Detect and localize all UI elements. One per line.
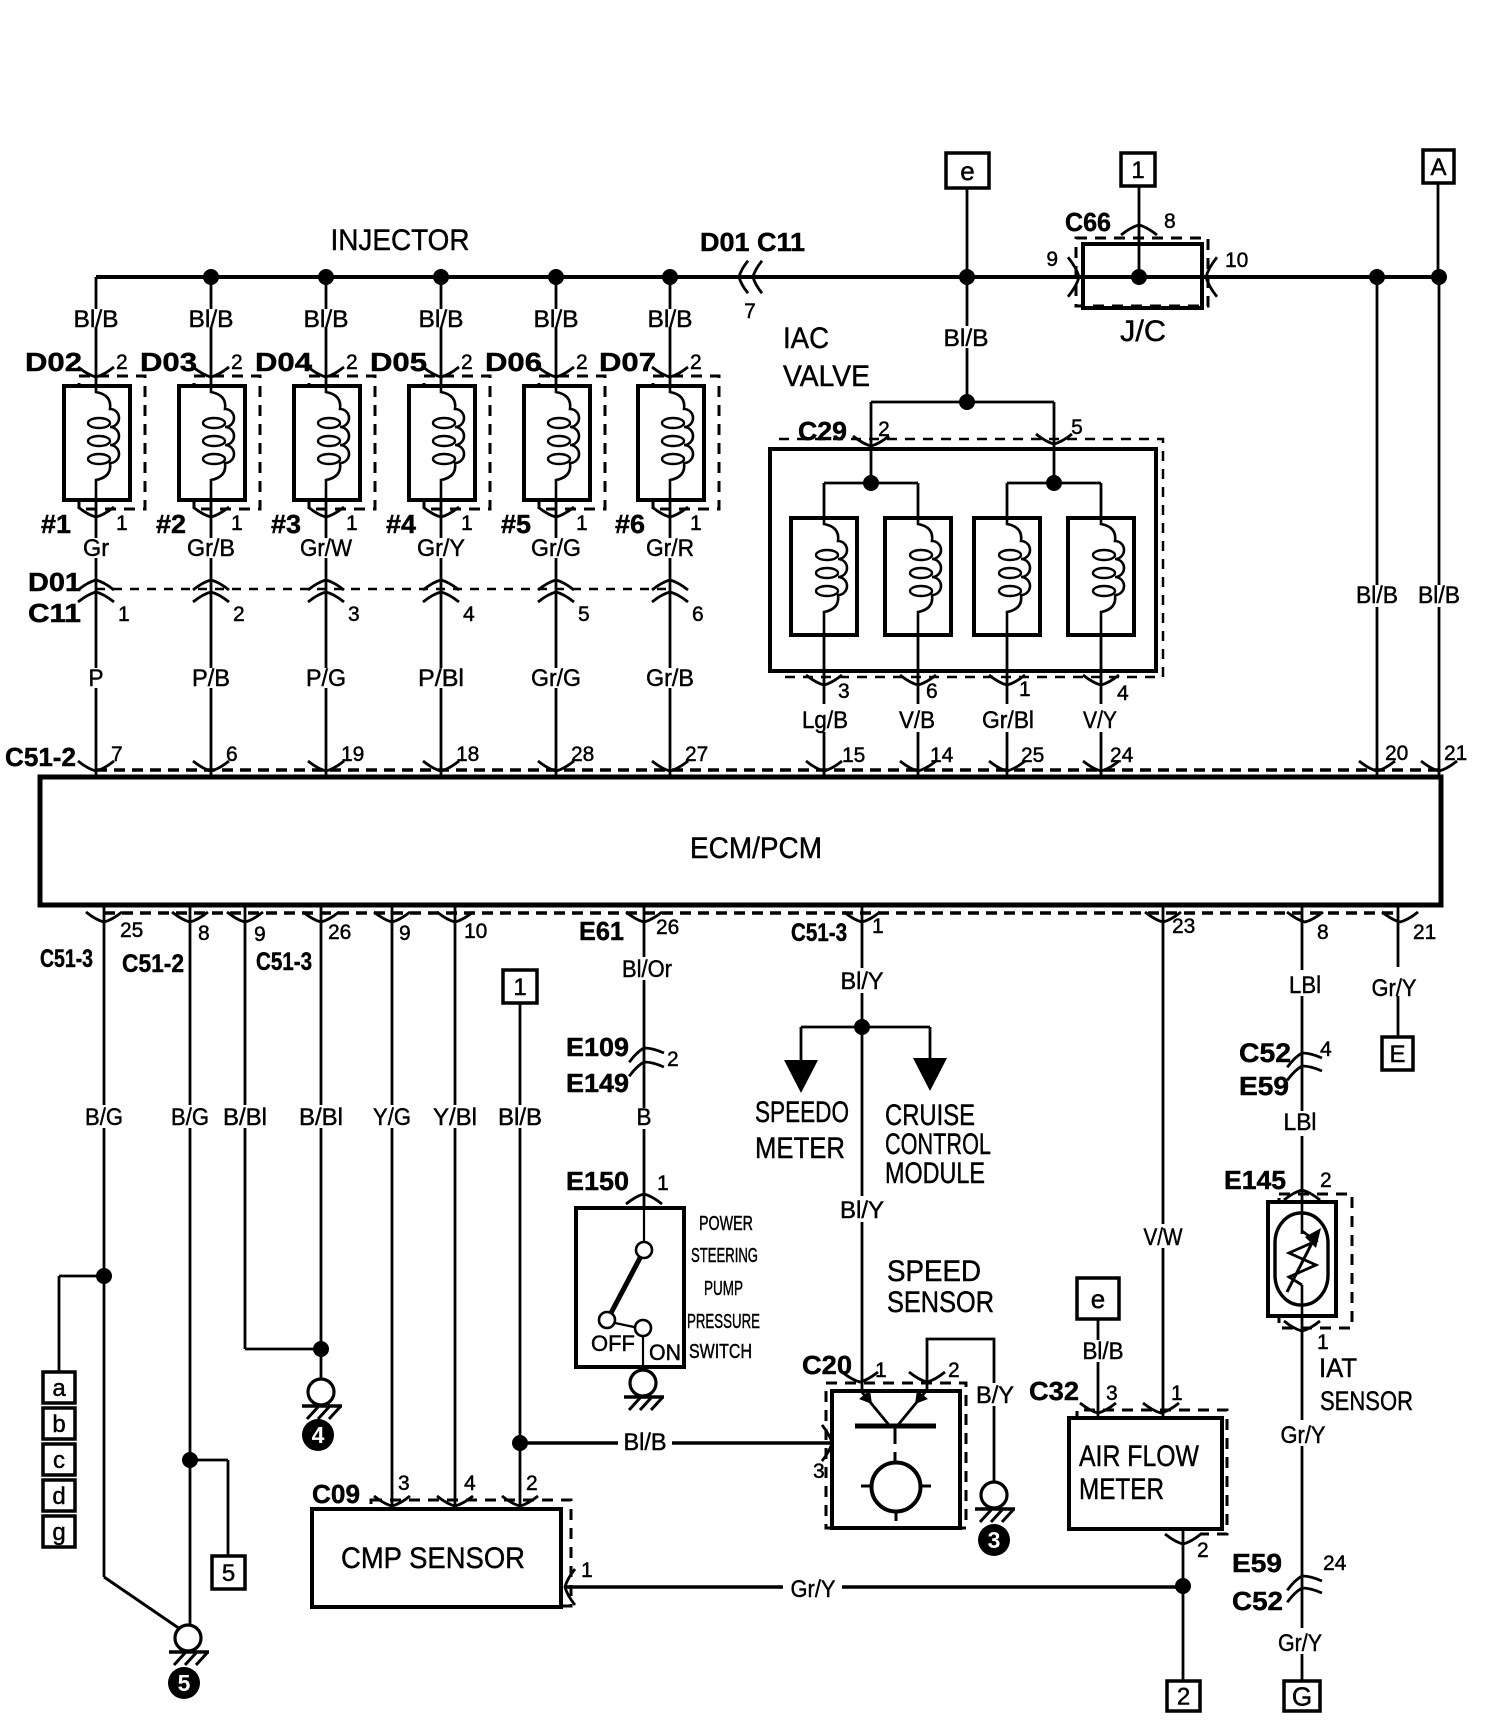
svg-text:PRESSURE: PRESSURE [687, 1311, 760, 1333]
svg-text:21: 21 [1413, 921, 1436, 944]
svg-text:1: 1 [875, 1359, 887, 1382]
svg-text:1: 1 [346, 512, 358, 535]
svg-text:Y/Bl: Y/Bl [433, 1104, 477, 1131]
svg-text:LBl: LBl [1289, 972, 1321, 999]
svg-text:C66: C66 [1065, 207, 1111, 237]
svg-text:2: 2 [667, 1048, 679, 1071]
svg-text:2: 2 [576, 351, 588, 374]
svg-text:3: 3 [348, 603, 360, 626]
svg-text:d: d [52, 1483, 65, 1510]
svg-text:2: 2 [526, 1472, 538, 1495]
svg-text:7: 7 [744, 300, 756, 323]
svg-text:G: G [1292, 1681, 1312, 1711]
svg-text:E: E [1389, 1041, 1405, 1068]
svg-text:J/C: J/C [1120, 315, 1166, 348]
svg-text:25: 25 [1021, 744, 1044, 767]
svg-text:V/B: V/B [899, 707, 935, 734]
svg-text:Gr/Bl: Gr/Bl [982, 707, 1034, 734]
svg-text:Bl/B: Bl/B [1418, 582, 1460, 609]
svg-text:IAT: IAT [1319, 1353, 1357, 1383]
svg-text:3: 3 [1106, 1382, 1118, 1405]
svg-text:C51-2: C51-2 [5, 742, 76, 772]
svg-text:9: 9 [399, 922, 411, 945]
svg-text:PUMP: PUMP [704, 1278, 743, 1300]
svg-text:E149: E149 [566, 1068, 629, 1098]
svg-text:4: 4 [464, 1472, 476, 1495]
svg-text:C51-3: C51-3 [40, 945, 93, 973]
svg-text:C52: C52 [1232, 1586, 1283, 1616]
svg-text:D01: D01 [28, 567, 81, 597]
svg-text:Gr: Gr [83, 535, 109, 562]
svg-text:19: 19 [341, 743, 364, 766]
svg-text:B: B [637, 1104, 652, 1131]
svg-text:SPEEDO: SPEEDO [755, 1096, 849, 1129]
svg-text:20: 20 [1385, 742, 1408, 765]
svg-text:P: P [89, 665, 104, 692]
svg-text:#1: #1 [41, 509, 71, 539]
svg-text:5: 5 [578, 603, 590, 626]
svg-text:4: 4 [1117, 682, 1129, 705]
svg-text:D05: D05 [370, 347, 427, 377]
svg-text:c: c [53, 1447, 65, 1474]
svg-text:18: 18 [456, 743, 479, 766]
svg-text:SWITCH: SWITCH [689, 1341, 752, 1363]
svg-text:E59: E59 [1239, 1071, 1289, 1101]
svg-text:D01 C11: D01 C11 [700, 227, 805, 257]
svg-text:CMP SENSOR: CMP SENSOR [341, 1542, 525, 1575]
svg-text:6: 6 [226, 743, 238, 766]
svg-text:POWER: POWER [699, 1213, 753, 1235]
svg-text:1: 1 [1317, 1331, 1329, 1354]
svg-text:Gr/B: Gr/B [187, 535, 235, 562]
svg-text:IAC: IAC [783, 322, 829, 355]
svg-text:C51-3: C51-3 [791, 919, 847, 947]
svg-text:V/Y: V/Y [1083, 707, 1117, 734]
svg-text:#3: #3 [271, 509, 301, 539]
svg-text:2: 2 [346, 351, 358, 374]
svg-text:D07: D07 [599, 347, 656, 377]
svg-text:4: 4 [1320, 1038, 1332, 1061]
svg-text:#2: #2 [156, 509, 186, 539]
svg-text:2: 2 [461, 351, 473, 374]
svg-text:C11: C11 [28, 598, 81, 628]
svg-text:B/Y: B/Y [976, 1382, 1014, 1409]
svg-text:2: 2 [878, 418, 890, 441]
svg-text:1: 1 [872, 915, 884, 938]
svg-text:Gr/Y: Gr/Y [791, 1576, 836, 1603]
svg-text:5: 5 [222, 1560, 235, 1587]
svg-text:Bl/B: Bl/B [944, 325, 989, 352]
svg-text:23: 23 [1172, 915, 1195, 938]
svg-text:P/Bl: P/Bl [418, 665, 464, 692]
svg-text:ON: ON [649, 1340, 681, 1365]
svg-text:3: 3 [988, 1527, 1001, 1553]
svg-text:8: 8 [1164, 210, 1176, 233]
svg-text:9: 9 [254, 923, 266, 946]
svg-text:24: 24 [1323, 1552, 1347, 1575]
svg-text:8: 8 [1317, 921, 1329, 944]
svg-text:C51-2: C51-2 [122, 950, 184, 978]
svg-text:14: 14 [930, 744, 954, 767]
svg-text:g: g [52, 1519, 65, 1546]
svg-text:Gr/Y: Gr/Y [417, 535, 465, 562]
svg-text:1: 1 [231, 512, 243, 535]
svg-text:7: 7 [111, 743, 123, 766]
svg-text:5: 5 [178, 1670, 191, 1696]
svg-text:INJECTOR: INJECTOR [331, 224, 470, 257]
svg-text:Gr/Y: Gr/Y [1278, 1630, 1322, 1657]
svg-text:1: 1 [116, 512, 128, 535]
svg-text:#6: #6 [615, 509, 645, 539]
svg-text:SENSOR: SENSOR [887, 1286, 994, 1319]
svg-text:C52: C52 [1239, 1038, 1291, 1068]
svg-text:2: 2 [1320, 1169, 1332, 1192]
svg-text:B/G: B/G [85, 1104, 123, 1131]
svg-text:V/W: V/W [1144, 1224, 1183, 1251]
svg-text:C29: C29 [798, 416, 847, 446]
svg-text:Gr/R: Gr/R [646, 535, 694, 562]
svg-text:27: 27 [685, 743, 708, 766]
svg-text:Bl/B: Bl/B [1083, 1338, 1124, 1365]
svg-text:1: 1 [118, 603, 130, 626]
svg-text:D06: D06 [485, 347, 542, 377]
svg-text:Bl/Or: Bl/Or [622, 956, 672, 983]
svg-text:1: 1 [657, 1172, 669, 1195]
svg-text:3: 3 [813, 1460, 825, 1483]
svg-text:1: 1 [576, 512, 588, 535]
svg-text:AIR FLOW: AIR FLOW [1079, 1440, 1200, 1473]
svg-text:#4: #4 [386, 509, 417, 539]
svg-text:Bl/B: Bl/B [74, 306, 119, 333]
svg-text:P/B: P/B [192, 665, 230, 692]
svg-text:2: 2 [1197, 1539, 1209, 1562]
svg-text:2: 2 [231, 351, 243, 374]
svg-text:4: 4 [463, 603, 475, 626]
svg-text:METER: METER [1079, 1473, 1164, 1506]
svg-text:8: 8 [198, 922, 210, 945]
svg-text:SPEED: SPEED [887, 1255, 981, 1288]
svg-text:C20: C20 [802, 1350, 852, 1380]
svg-text:Y/G: Y/G [373, 1104, 411, 1131]
svg-text:E109: E109 [566, 1032, 629, 1062]
svg-text:25: 25 [120, 919, 143, 942]
svg-text:2: 2 [948, 1359, 960, 1382]
svg-text:e: e [1091, 1284, 1105, 1314]
svg-text:6: 6 [926, 680, 938, 703]
svg-text:Bl/Y: Bl/Y [841, 968, 884, 995]
svg-text:1: 1 [581, 1559, 593, 1582]
svg-text:2: 2 [1177, 1684, 1190, 1711]
svg-text:Gr/G: Gr/G [531, 665, 581, 692]
svg-text:9: 9 [1046, 248, 1058, 271]
svg-text:E145: E145 [1224, 1165, 1286, 1195]
svg-text:Gr/W: Gr/W [300, 535, 352, 562]
svg-text:B/Bl: B/Bl [299, 1104, 343, 1131]
svg-text:Bl/Y: Bl/Y [840, 1197, 884, 1224]
svg-text:Bl/B: Bl/B [624, 1429, 667, 1456]
svg-text:STEERING: STEERING [691, 1245, 758, 1267]
svg-text:Lg/B: Lg/B [802, 707, 848, 734]
svg-text:b: b [52, 1411, 65, 1438]
svg-text:B/G: B/G [171, 1104, 209, 1131]
svg-text:Bl/B: Bl/B [648, 306, 693, 333]
svg-text:MODULE: MODULE [885, 1157, 985, 1190]
svg-text:C51-3: C51-3 [256, 948, 312, 976]
svg-text:Bl/B: Bl/B [189, 306, 234, 333]
svg-text:C09: C09 [312, 1479, 360, 1509]
svg-text:LBl: LBl [1284, 1109, 1317, 1136]
svg-text:5: 5 [1071, 416, 1083, 439]
svg-text:26: 26 [328, 921, 351, 944]
svg-text:e: e [960, 156, 974, 186]
svg-text:ECM/PCM: ECM/PCM [690, 832, 822, 865]
svg-text:10: 10 [464, 920, 487, 943]
svg-text:2: 2 [116, 351, 128, 374]
svg-text:a: a [52, 1375, 66, 1402]
svg-text:28: 28 [571, 743, 594, 766]
svg-text:26: 26 [656, 916, 679, 939]
svg-text:Gr/Y: Gr/Y [1372, 975, 1417, 1002]
svg-text:E150: E150 [566, 1166, 629, 1196]
svg-text:2: 2 [690, 351, 702, 374]
svg-text:3: 3 [398, 1472, 410, 1495]
svg-text:Bl/B: Bl/B [419, 306, 464, 333]
svg-text:1: 1 [461, 512, 473, 535]
svg-text:10: 10 [1225, 249, 1248, 272]
svg-text:D04: D04 [255, 347, 313, 377]
svg-text:3: 3 [838, 680, 850, 703]
svg-text:VALVE: VALVE [783, 360, 870, 393]
svg-text:Gr/Y: Gr/Y [1281, 1422, 1326, 1449]
svg-text:2: 2 [233, 603, 245, 626]
svg-text:E59: E59 [1232, 1548, 1282, 1578]
svg-text:1: 1 [1131, 157, 1144, 184]
svg-text:21: 21 [1444, 742, 1467, 765]
svg-text:B/Bl: B/Bl [223, 1104, 267, 1131]
svg-text:4: 4 [312, 1422, 325, 1448]
svg-text:OFF: OFF [591, 1331, 635, 1356]
svg-text:1: 1 [1171, 1382, 1183, 1405]
svg-text:Bl/B: Bl/B [304, 306, 349, 333]
svg-text:SENSOR: SENSOR [1320, 1386, 1413, 1416]
svg-text:P/G: P/G [306, 665, 346, 692]
svg-text:1: 1 [690, 512, 702, 535]
svg-text:Bl/B: Bl/B [1356, 582, 1398, 609]
svg-text:#5: #5 [501, 509, 531, 539]
svg-text:D03: D03 [140, 347, 197, 377]
svg-text:1: 1 [513, 974, 526, 1001]
svg-text:Bl/B: Bl/B [534, 306, 579, 333]
svg-text:6: 6 [692, 603, 704, 626]
svg-text:15: 15 [842, 744, 865, 767]
svg-text:Gr/B: Gr/B [646, 665, 694, 692]
svg-text:C32: C32 [1029, 1376, 1079, 1406]
svg-text:METER: METER [755, 1132, 845, 1165]
svg-text:E61: E61 [579, 916, 624, 946]
svg-text:Bl/B: Bl/B [498, 1104, 542, 1131]
svg-text:1: 1 [1019, 678, 1031, 701]
svg-text:A: A [1430, 154, 1446, 181]
svg-text:D02: D02 [25, 347, 82, 377]
svg-text:24: 24 [1110, 744, 1134, 767]
svg-text:Gr/G: Gr/G [531, 535, 581, 562]
